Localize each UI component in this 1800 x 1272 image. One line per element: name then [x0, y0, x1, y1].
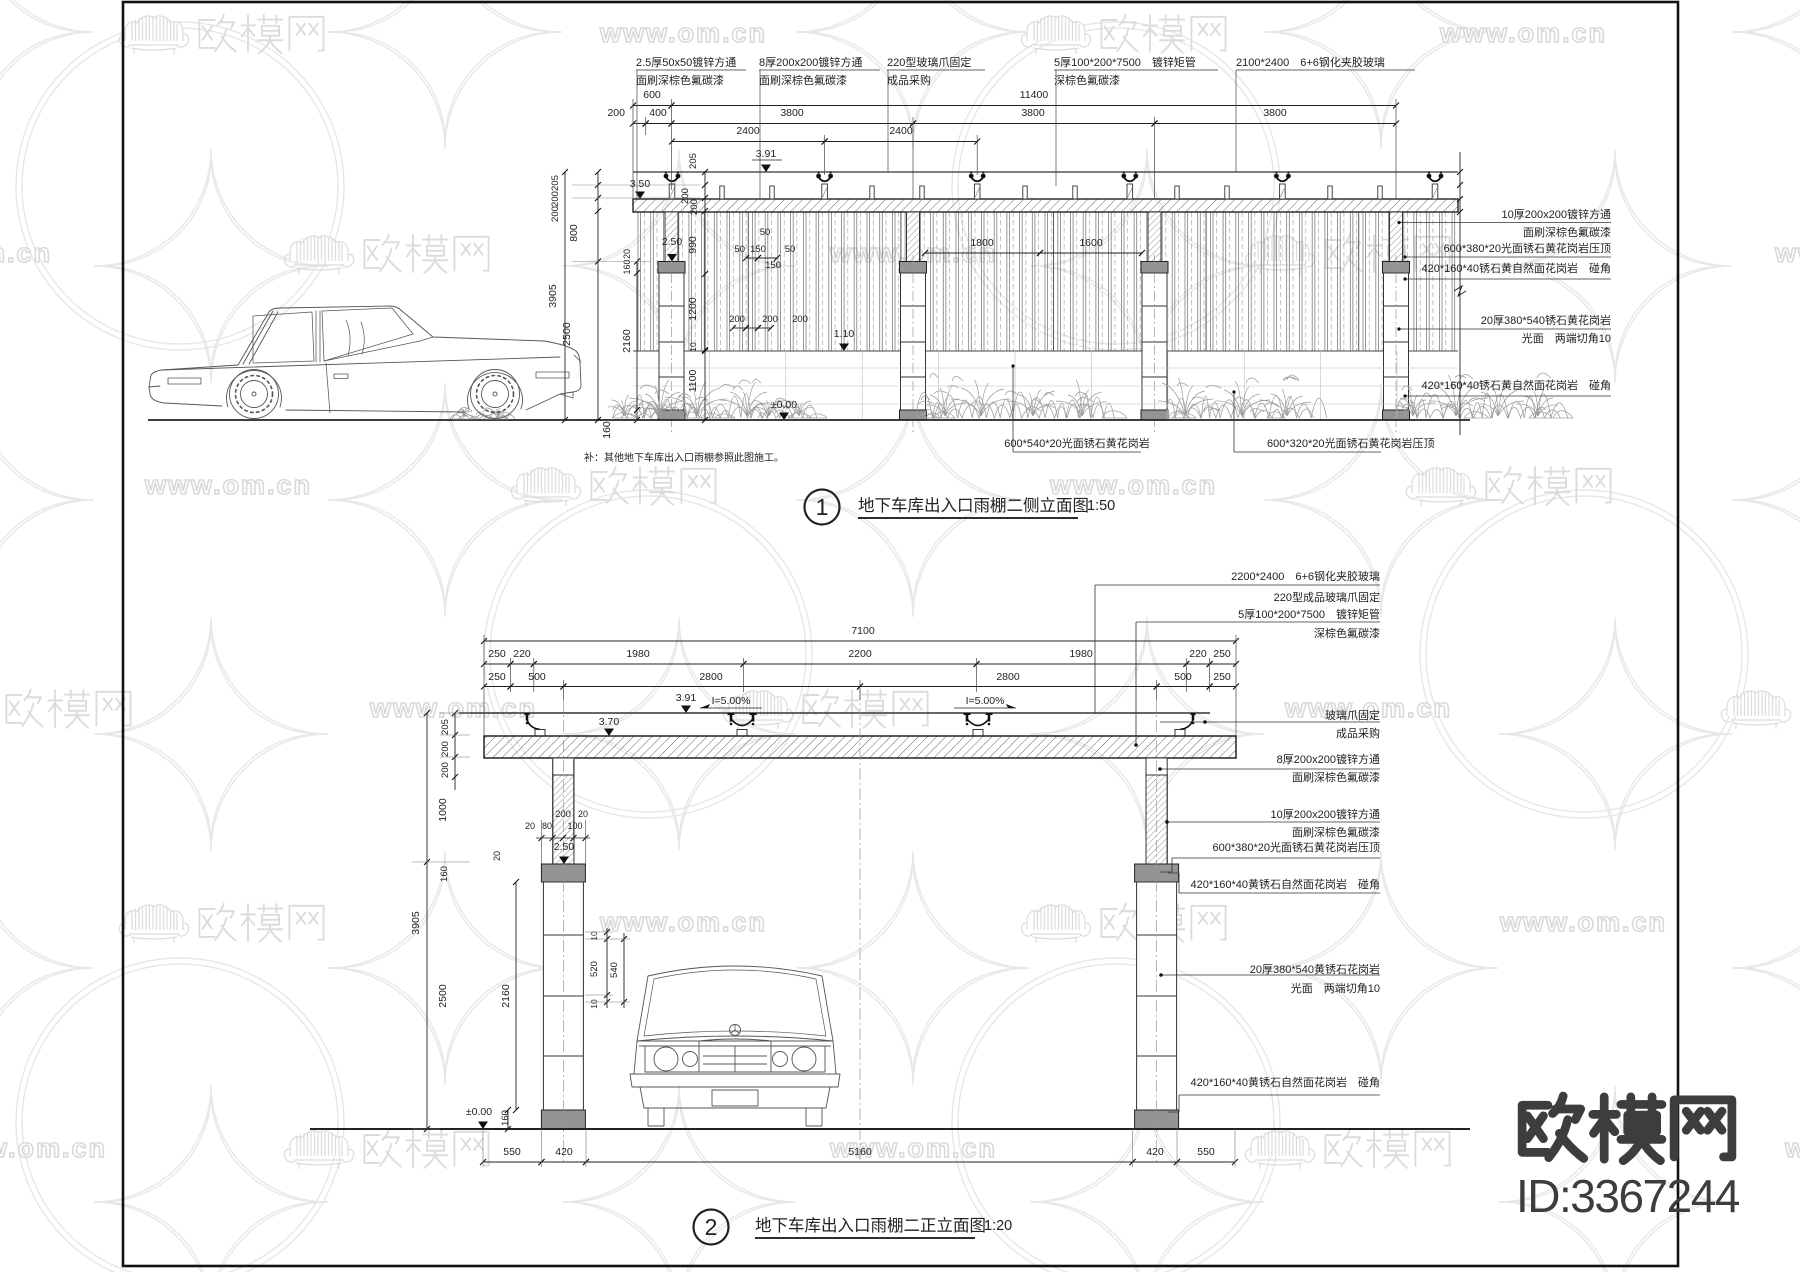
svg-text:面刷深棕色氟碳漆: 面刷深棕色氟碳漆: [1292, 825, 1380, 839]
glass canopy line: [633, 171, 1458, 173]
svg-text:1:20: 1:20: [984, 1218, 1012, 1234]
svg-text:20厚380*540锈石黄花岗岩: 20厚380*540锈石黄花岗岩: [1481, 313, 1611, 327]
svg-text:250: 250: [488, 671, 506, 683]
svg-text:10: 10: [589, 931, 599, 941]
svg-text:玻璃爪固定: 玻璃爪固定: [1325, 708, 1380, 722]
svg-text:205: 205: [550, 175, 561, 191]
svg-text:深棕色氟碳漆: 深棕色氟碳漆: [1314, 626, 1380, 640]
svg-text:1000: 1000: [437, 798, 449, 822]
title 2: [694, 1210, 729, 1245]
svg-text:7100: 7100: [851, 625, 875, 637]
svg-text:2.50: 2.50: [662, 236, 683, 248]
svg-text:200: 200: [440, 762, 451, 778]
svg-text:3.50: 3.50: [630, 178, 651, 190]
svg-text:地下车库出入口雨棚二侧立面图: 地下车库出入口雨棚二侧立面图: [858, 496, 1089, 515]
svg-text:±0.00: ±0.00: [771, 399, 797, 411]
svg-text:5厚100*200*7500 镀锌矩管: 5厚100*200*7500 镀锌矩管: [1238, 607, 1380, 621]
vertical timber slats: [638, 212, 1455, 351]
svg-text:220型成品玻璃爪固定: 220型成品玻璃爪固定: [1274, 590, 1380, 604]
svg-text:1.10: 1.10: [834, 328, 855, 340]
svg-text:10: 10: [589, 999, 599, 1009]
dimension chains (front elevation): [484, 640, 1236, 642]
svg-text:520: 520: [589, 961, 600, 977]
svg-text:8厚200x200镀锌方通: 8厚200x200镀锌方通: [1277, 752, 1380, 766]
right-side leader annotations: [1399, 222, 1611, 224]
svg-text:200: 200: [729, 314, 745, 325]
svg-text:3800: 3800: [1021, 107, 1045, 119]
svg-text:2160: 2160: [500, 984, 512, 1008]
svg-text:2500: 2500: [437, 984, 449, 1008]
svg-text:20厚380*540黄锈石花岗岩: 20厚380*540黄锈石花岗岩: [1250, 962, 1380, 976]
svg-text:面刷深棕色氟碳漆: 面刷深棕色氟碳漆: [636, 73, 724, 87]
svg-text:220型玻璃爪固定: 220型玻璃爪固定: [887, 55, 971, 69]
svg-text:2: 2: [705, 1214, 718, 1240]
svg-text:www.om.cn: www.om.cn: [1049, 470, 1217, 500]
svg-text:2400: 2400: [736, 125, 760, 137]
svg-text:8厚200x200镀锌方通: 8厚200x200镀锌方通: [759, 55, 862, 69]
svg-text:220: 220: [513, 648, 531, 660]
svg-text:11400: 11400: [1020, 89, 1049, 101]
svg-text:成品采购: 成品采购: [1336, 726, 1380, 740]
column at 563.4: [553, 758, 574, 775]
svg-text:1800: 1800: [970, 237, 994, 249]
left dimension chains (front elevation): [426, 713, 428, 1129]
svg-text:100: 100: [567, 821, 582, 831]
svg-text:200: 200: [550, 206, 561, 222]
svg-text:420*160*40锈石黄自然面花岗岩 碰角: 420*160*40锈石黄自然面花岗岩 碰角: [1421, 378, 1611, 392]
svg-text:深棕色氟碳漆: 深棕色氟碳漆: [1054, 73, 1120, 87]
svg-text:2200: 2200: [848, 648, 872, 660]
svg-text:www.om.cn: www.om.cn: [1774, 238, 1800, 268]
svg-text:2.5厚50x50镀锌方通: 2.5厚50x50镀锌方通: [636, 55, 736, 69]
svg-text:2200*2400 6+6钢化夹胶玻璃: 2200*2400 6+6钢化夹胶玻璃: [1231, 569, 1380, 583]
svg-text:www.om.cn: www.om.cn: [0, 1133, 107, 1163]
svg-text:面刷深棕色氟碳漆: 面刷深棕色氟碳漆: [1292, 770, 1380, 784]
svg-text:光面 两端切角10: 光面 两端切角10: [1522, 331, 1611, 345]
svg-text:www.om.cn: www.om.cn: [369, 693, 537, 723]
svg-text:±0.00: ±0.00: [466, 1106, 492, 1118]
svg-text:420: 420: [1146, 1146, 1164, 1158]
svg-text:www.om.cn: www.om.cn: [599, 18, 767, 48]
svg-text:500: 500: [1174, 671, 1192, 683]
svg-text:3.91: 3.91: [676, 692, 697, 704]
svg-text:600*320*20光面锈石黄花岗岩压顶: 600*320*20光面锈石黄花岗岩压顶: [1267, 436, 1435, 450]
left dimension chains: [564, 172, 566, 420]
svg-text:面刷深棕色氟碳漆: 面刷深棕色氟碳漆: [759, 73, 847, 87]
svg-text:www.om.cn: www.om.cn: [144, 470, 312, 500]
svg-text:200: 200: [792, 314, 808, 325]
svg-text:200: 200: [440, 741, 451, 757]
ground line: [148, 419, 1470, 421]
svg-text:200: 200: [607, 107, 625, 119]
svg-text:50: 50: [734, 244, 745, 255]
svg-text:160: 160: [439, 866, 450, 882]
svg-text:400: 400: [649, 107, 667, 119]
column at x=1396.0: [1390, 212, 1403, 262]
site logo bottom right: [1522, 1096, 1732, 1161]
car (side view): [149, 306, 581, 419]
svg-text:www.om.cn: www.om.cn: [1439, 18, 1607, 48]
svg-text:250: 250: [1213, 671, 1231, 683]
svg-text:420*160*40锈石黄自然面花岗岩 碰角: 420*160*40锈石黄自然面花岗岩 碰角: [1421, 261, 1611, 275]
svg-text:光面 两端切角10: 光面 两端切角10: [1291, 981, 1380, 995]
svg-text:2500: 2500: [561, 322, 573, 346]
watermark logos and urls: [119, 16, 188, 54]
svg-text:540: 540: [609, 962, 620, 978]
svg-text:80: 80: [542, 821, 552, 831]
svg-text:205: 205: [440, 719, 451, 735]
svg-text:500: 500: [528, 671, 546, 683]
ground line: [310, 1128, 1470, 1130]
svg-text:250: 250: [1213, 648, 1231, 660]
car (front view): [630, 966, 840, 1126]
svg-text:5厚100*200*7500 镀锌矩管: 5厚100*200*7500 镀锌矩管: [1054, 55, 1196, 69]
svg-text:1: 1: [816, 494, 829, 520]
svg-text:800: 800: [568, 224, 580, 242]
svg-text:1:50: 1:50: [1087, 498, 1115, 514]
svg-text:www.om.cn: www.om.cn: [1784, 1133, 1800, 1163]
svg-text:3905: 3905: [410, 911, 422, 935]
svg-text:1980: 1980: [626, 648, 650, 660]
svg-text:600: 600: [643, 89, 661, 101]
svg-text:5160: 5160: [848, 1146, 872, 1158]
svg-text:1200: 1200: [687, 297, 699, 321]
title 1: [805, 490, 840, 525]
svg-text:www.om.cn: www.om.cn: [1499, 907, 1667, 937]
svg-text:2800: 2800: [996, 671, 1020, 683]
svg-text:420*160*40黄锈石自然面花岗岩 碰角: 420*160*40黄锈石自然面花岗岩 碰角: [1190, 1075, 1380, 1089]
roof beam band (hatched): [633, 199, 1458, 212]
svg-text:200: 200: [550, 191, 561, 207]
svg-text:600*540*20光面锈石黄花岗岩: 600*540*20光面锈石黄花岗岩: [1004, 436, 1150, 450]
svg-text:420: 420: [555, 1146, 573, 1158]
svg-text:www.om.cn: www.om.cn: [0, 238, 52, 268]
svg-text:地下车库出入口雨棚二正立面图: 地下车库出入口雨棚二正立面图: [755, 1216, 986, 1235]
50x50 square tube posts: [720, 186, 724, 199]
column at x=1154.5: [1148, 212, 1161, 262]
svg-text:160: 160: [601, 421, 613, 439]
svg-text:2800: 2800: [699, 671, 723, 683]
column at x=913.0: [907, 212, 920, 262]
svg-text:I=5.00%: I=5.00%: [712, 695, 751, 707]
glass spider fittings: [525, 714, 546, 737]
svg-text:220: 220: [1189, 648, 1207, 660]
svg-text:ID:3367244: ID:3367244: [1516, 1170, 1740, 1222]
svg-text:550: 550: [1197, 1146, 1215, 1158]
svg-text:250: 250: [488, 648, 506, 660]
svg-text:600*380*20光面锈石黄花岗岩压顶: 600*380*20光面锈石黄花岗岩压顶: [1443, 241, 1611, 255]
svg-text:550: 550: [503, 1146, 521, 1158]
svg-text:1980: 1980: [1069, 648, 1093, 660]
svg-text:3.91: 3.91: [756, 148, 777, 160]
glass line: [459, 712, 1210, 714]
svg-text:50: 50: [785, 244, 796, 255]
planting shrubs: [635, 394, 768, 418]
svg-text:420*160*40黄锈石自然面花岗岩 碰角: 420*160*40黄锈石自然面花岗岩 碰角: [1190, 877, 1380, 891]
svg-text:20: 20: [492, 851, 502, 861]
svg-text:www.om.cn: www.om.cn: [599, 907, 767, 937]
svg-text:3905: 3905: [547, 284, 559, 308]
svg-text:1100: 1100: [687, 370, 699, 393]
svg-text:1600: 1600: [1079, 237, 1103, 249]
svg-text:20: 20: [578, 809, 588, 819]
svg-text:20: 20: [525, 821, 535, 831]
svg-text:990: 990: [687, 236, 699, 254]
svg-text:3800: 3800: [780, 107, 804, 119]
svg-text:3.70: 3.70: [599, 716, 620, 728]
svg-text:2.50: 2.50: [554, 841, 575, 853]
svg-text:150: 150: [765, 260, 781, 271]
svg-text:成品采购: 成品采购: [887, 73, 931, 87]
svg-text:200: 200: [555, 809, 571, 820]
svg-text:205: 205: [688, 153, 699, 169]
bottom dimension chain: [483, 1161, 542, 1163]
svg-text:3800: 3800: [1263, 107, 1287, 119]
svg-text:10厚200x200镀锌方通: 10厚200x200镀锌方通: [1502, 207, 1611, 221]
svg-text:50: 50: [760, 227, 771, 238]
glass spider fittings: [664, 173, 681, 200]
roof beam band (hatched): [484, 736, 1236, 758]
svg-text:2100*2400 6+6钢化夹胶玻璃: 2100*2400 6+6钢化夹胶玻璃: [1236, 55, 1385, 69]
stone wall with tile joints: [633, 351, 1458, 420]
svg-text:200: 200: [762, 314, 778, 325]
top dimension chains: [633, 105, 672, 107]
svg-text:补：其他地下车库出入口雨棚参照此图施工。: 补：其他地下车库出入口雨棚参照此图施工。: [584, 451, 784, 464]
column at 1156.6: [1146, 758, 1167, 775]
svg-text:面刷深棕色氟碳漆: 面刷深棕色氟碳漆: [1523, 225, 1611, 239]
svg-text:I=5.00%: I=5.00%: [966, 695, 1005, 707]
svg-text:2400: 2400: [889, 125, 913, 137]
svg-text:20: 20: [622, 249, 632, 259]
svg-text:600*380*20光面锈石黄花岗岩压顶: 600*380*20光面锈石黄花岗岩压顶: [1212, 840, 1380, 854]
svg-text:2160: 2160: [621, 329, 633, 353]
svg-text:150: 150: [750, 244, 766, 255]
column at x=671.5: [665, 212, 678, 262]
svg-text:10厚200x200镀锌方通: 10厚200x200镀锌方通: [1271, 807, 1380, 821]
svg-text:10: 10: [688, 342, 698, 352]
svg-text:200: 200: [689, 199, 700, 215]
